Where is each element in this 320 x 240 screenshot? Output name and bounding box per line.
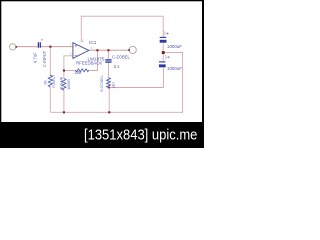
- svg-text:4.7uF: 4.7uF: [33, 52, 38, 63]
- junction zobel ground: [108, 111, 110, 113]
- wire node A down to R-INPUT: [49, 47, 51, 76]
- svg-text:R-INPUT: R-INPUT: [52, 75, 56, 88]
- wire R-FEEDBACK right up to output: [89, 50, 98, 70]
- wire C-INPUT to op-amp +input: [41, 46, 73, 48]
- capacitor C1 1000uF electrolytic: [160, 36, 167, 38]
- svg-text:1: 1: [70, 43, 72, 47]
- junction feedback node: [63, 70, 65, 72]
- svg-text:1M: 1M: [43, 80, 47, 85]
- svg-text:0.1: 0.1: [114, 64, 120, 69]
- junction zobel mid-rail: [108, 87, 110, 89]
- svg-text:1000uF: 1000uF: [167, 66, 182, 71]
- svg-text:1000uF: 1000uF: [167, 44, 182, 49]
- resistor R-ZOBEL: [107, 78, 111, 88]
- svg-text:2: 2: [70, 52, 72, 56]
- svg-text:2R7: 2R7: [112, 82, 116, 89]
- svg-text:C-INPUT: C-INPUT: [42, 50, 47, 67]
- svg-text:C-ZOBEL: C-ZOBEL: [112, 55, 130, 60]
- wire op-amp -input stub: [64, 56, 73, 79]
- svg-text:5: 5: [82, 39, 84, 43]
- wire R-INPUT bottom to ground rail: [49, 87, 51, 112]
- junction output-zobel: [107, 49, 109, 51]
- bottom banner: [0, 122, 204, 148]
- border frame: [1, 1, 204, 148]
- wire output node down to C-ZOBEL: [107, 50, 109, 59]
- svg-text:[1351x843] upic.me: [1351x843] upic.me: [84, 126, 198, 143]
- svg-text:R-ZOBEL: R-ZOBEL: [99, 74, 104, 92]
- capacitor C2 1000uF electrolytic: [159, 61, 166, 63]
- svg-text:1000R: 1000R: [67, 79, 71, 90]
- wire ground bottom rail: [50, 111, 183, 113]
- input connector pad: [10, 44, 16, 50]
- junction R-GAIN ground: [63, 111, 65, 113]
- svg-text:R-GAIN: R-GAIN: [59, 76, 63, 89]
- wire R-ZOBEL bottom to mid rail: [108, 86, 110, 89]
- wire input jack to C-INPUT: [16, 46, 38, 48]
- svg-text:RFEEDBACK: RFEEDBACK: [76, 61, 102, 66]
- resistor R-GAIN: [62, 79, 66, 91]
- op-amp IC1 triangle: [73, 43, 89, 59]
- wire between C1 and C2: [162, 43, 164, 62]
- wire mid rail (V-): [109, 67, 164, 87]
- svg-text:4: 4: [90, 46, 92, 50]
- wire R-GAIN bottom to ground rail: [63, 90, 65, 113]
- wire C-ZOBEL to R-ZOBEL: [107, 63, 109, 78]
- wire zobel node down to ground rail: [108, 88, 110, 113]
- C1 polarity +: [164, 32, 169, 36]
- resistor R-INPUT: [48, 75, 52, 87]
- junction node A: [49, 46, 51, 48]
- junction supply midpoint: [162, 51, 165, 54]
- svg-text:20k: 20k: [75, 70, 83, 75]
- resistor R-FEEDBACK: [76, 69, 89, 72]
- op-amp - mark: [75, 54, 77, 56]
- op-amp + mark: [75, 45, 77, 47]
- capacitor C-INPUT plates: [38, 42, 40, 48]
- wire V+ top rail: [81, 16, 163, 43]
- C2 polarity +: [165, 55, 170, 59]
- output connector pad: [129, 46, 136, 53]
- wire right supply column C1 top: [162, 16, 164, 37]
- wire op-amp output to output jack: [89, 49, 129, 51]
- junction output-feedback: [96, 49, 98, 51]
- wire supply mid to right loop: [163, 52, 182, 112]
- wire feedback node to R-FEEDBACK left: [64, 70, 76, 72]
- C-INPUT polarity +: [41, 39, 43, 41]
- capacitor C-ZOBEL plates: [105, 60, 111, 62]
